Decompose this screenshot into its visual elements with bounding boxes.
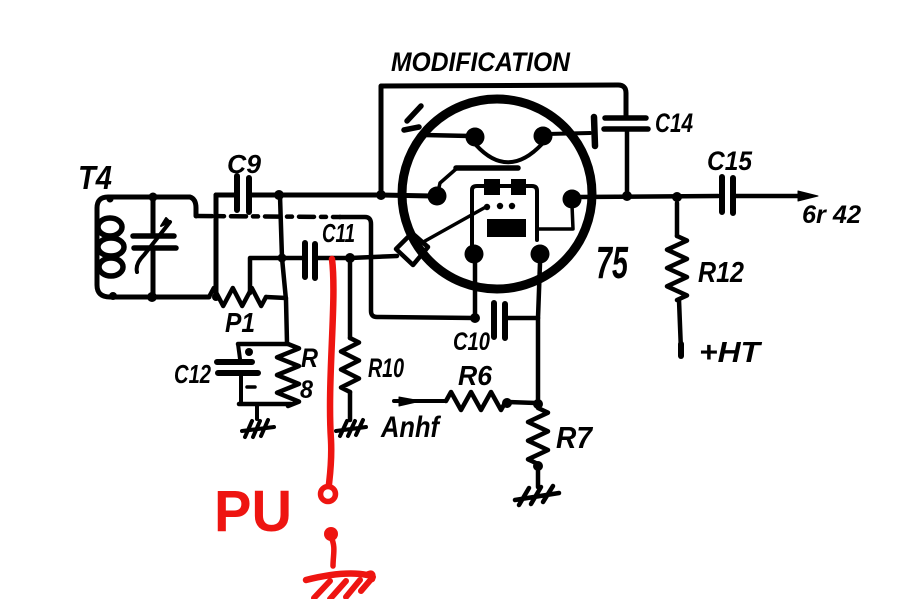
- wire ground stub below C12 box: [255, 404, 259, 419]
- node P1 left junction: [212, 293, 220, 301]
- wire anode output line: [578, 196, 718, 197]
- wire C9-block left side: [214, 195, 219, 297]
- transformer T4 tank box: [97, 197, 209, 297]
- wire pin2 to C14 terminal: [547, 133, 590, 134]
- diode plate left: [484, 179, 500, 195]
- node tank bottom-left blob: [109, 292, 117, 300]
- output arrowhead: [798, 191, 818, 201]
- resistor R12: [667, 236, 687, 300]
- node tank / tuning cap bottom: [147, 292, 157, 302]
- wire top AVC line to tube: [216, 195, 432, 196]
- wire P1 wiper to C11: [250, 258, 302, 293]
- variable capacitor arrow: [137, 222, 170, 272]
- node R12 junction: [672, 192, 682, 202]
- wire R12 top lead: [675, 203, 680, 236]
- grid cap diamond: [396, 233, 428, 265]
- wire R6 input lead: [394, 399, 446, 403]
- resistor R6: [446, 392, 506, 410]
- node mod box / top wire: [376, 190, 386, 200]
- svg-text:T4: T4: [78, 159, 112, 196]
- svg-text:C10: C10: [453, 328, 490, 356]
- variable capacitor (tuning) branch wire: [151, 197, 156, 297]
- wire pin4 link: [539, 205, 573, 229]
- svg-text:C11: C11: [322, 218, 355, 248]
- wire R12 to +HT: [679, 300, 681, 351]
- cathode plate: [487, 219, 526, 237]
- node top wire / P1 branch: [274, 190, 284, 200]
- variable capacitor plates: [133, 236, 176, 248]
- svg-text:MODIFICATION: MODIFICATION: [391, 47, 570, 77]
- wire C12/R8 top link: [238, 342, 288, 347]
- svg-text:C9: C9: [227, 149, 262, 179]
- pin 6 (bottom-right): [531, 245, 550, 264]
- wire C14 to anode line: [625, 131, 630, 196]
- capacitor C9: [237, 176, 249, 212]
- svg-text:R7: R7: [556, 420, 594, 455]
- wire C15 to output arrow: [736, 194, 802, 199]
- svg-text:C12: C12: [174, 359, 211, 389]
- svg-text:8: 8: [300, 376, 313, 404]
- tube V1 envelope: [402, 99, 592, 289]
- node R7 bottom: [533, 461, 543, 471]
- node R6 right: [502, 398, 512, 408]
- node crossing blob at C11 wire: [278, 254, 287, 263]
- node C11 / R10 junction: [345, 253, 355, 263]
- pin 4 (right): [563, 190, 582, 209]
- inner box (triode section): [472, 186, 537, 252]
- node C10 / tube-left junction: [470, 313, 480, 323]
- red ground stem: [331, 537, 334, 566]
- grid dot a: [484, 204, 490, 210]
- resistor R8: [277, 344, 299, 406]
- svg-text:75: 75: [596, 237, 629, 288]
- svg-text:+HT: +HT: [699, 337, 763, 369]
- red ground blob: [324, 527, 338, 541]
- node tank top-edge blob: [107, 196, 114, 203]
- svg-text:PU: PU: [214, 479, 292, 544]
- wire R10 bottom lead: [348, 392, 353, 420]
- grid dot c: [509, 203, 515, 209]
- wire anode bar to pin 3: [438, 169, 456, 192]
- svg-text:C14: C14: [655, 108, 693, 138]
- arrow on R6 lead: [399, 397, 421, 406]
- pin 3 (left): [428, 187, 447, 206]
- resistor R10: [341, 338, 359, 392]
- svg-text:Anhf: Anhf: [380, 411, 441, 444]
- pin 5 (bottom-left): [465, 245, 484, 264]
- potentiometer P1: [209, 288, 266, 306]
- resistor R7: [528, 408, 548, 464]
- wire heater stub left: [424, 135, 470, 136]
- svg-text:R12: R12: [698, 257, 744, 289]
- svg-text:C15: C15: [707, 146, 753, 176]
- node R7 top: [533, 399, 543, 409]
- ground (red): [306, 574, 372, 580]
- svg-text:R6: R6: [458, 360, 492, 391]
- heater arc: [476, 144, 542, 162]
- wire R6 to R7 node: [507, 402, 536, 403]
- wire C11 to grid cap: [318, 256, 397, 258]
- wire tube bottom-right pin down: [538, 263, 540, 404]
- wire tube bottom-left pin down: [473, 263, 478, 318]
- wire C12 bottom stub: [239, 373, 243, 403]
- PU annotation wire (red): [329, 259, 333, 484]
- diode plate right: [511, 179, 526, 195]
- svg-text:R10: R10: [368, 353, 404, 383]
- wire C10 right to R7 node: [508, 316, 538, 321]
- node C12 top blob: [245, 348, 253, 356]
- wire P1 right end down to R8: [280, 196, 287, 343]
- ground below R7: [515, 486, 559, 505]
- anode top bar: [456, 165, 518, 171]
- ground below C12/R8: [242, 420, 274, 437]
- svg-text:6r 42: 6r 42: [802, 201, 861, 229]
- wire R10 top lead: [348, 262, 353, 338]
- ground below R10: [336, 420, 366, 436]
- wire grid cap diagonal to grid: [425, 208, 484, 241]
- capacitor C12 top stub: [238, 344, 240, 359]
- pin 2 (top-right): [534, 127, 553, 146]
- wire dash-dot line from tank to grid network: [197, 216, 340, 217]
- svg-text:P1: P1: [225, 307, 255, 338]
- node C14 junction: [622, 191, 632, 201]
- modification box outline: [381, 85, 626, 195]
- pointer mark (modification arrow): [404, 106, 421, 130]
- grid dot b: [497, 203, 503, 209]
- capacitor C14: [604, 118, 648, 129]
- wire C12/R8 bottom link: [239, 402, 291, 407]
- node tank / tuning cap top: [149, 193, 158, 202]
- svg-text:R: R: [301, 343, 318, 373]
- capacitor C15: [722, 177, 733, 213]
- wire R7 to ground: [536, 466, 541, 487]
- pin 1 (top-left): [466, 128, 485, 147]
- PU wire end loop (red): [321, 487, 336, 502]
- polarity mark: [247, 385, 255, 389]
- +HT lead tip: [678, 344, 684, 356]
- capacitor C11: [305, 243, 315, 278]
- capacitor C10: [494, 303, 505, 338]
- capacitor C12: [217, 362, 258, 373]
- coil L (T4 primary loops): [98, 218, 122, 236]
- terminal bar at C14: [594, 117, 595, 146]
